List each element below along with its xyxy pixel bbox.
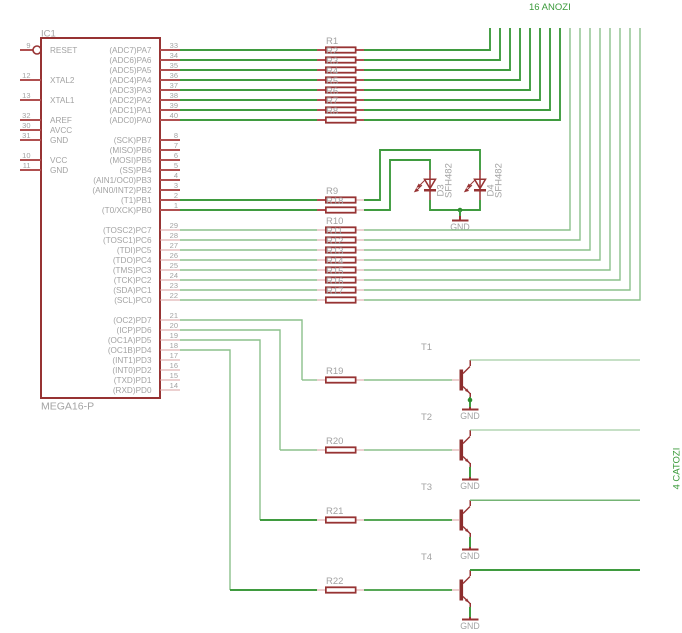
resistor R6 [317,99,325,101]
wire anode net A4 from R4 up to header [364,28,520,80]
svg-text:T3: T3 [421,482,432,493]
wire net PA0 from pin 40 to R8 [180,119,317,121]
pin 15 ((TXD)PD1) right stub [160,379,180,381]
resistor R10 [317,229,325,231]
svg-text:12: 12 [22,71,30,80]
svg-text:(T1)PB1: (T1)PB1 [121,196,152,205]
pin 5 ((SS)PB4) right stub [160,169,180,171]
pin 20 ((ICP)PD6) right stub [160,329,180,331]
resistor R7 [317,109,325,111]
svg-text:19: 19 [170,331,178,340]
svg-text:35: 35 [170,61,178,70]
pin 19 ((OC1A)PD5) right stub [160,339,180,341]
wire anode net A8 from R8 up to header [364,28,560,120]
wire net PA6 from pin 34 to R2 [180,59,317,61]
wire anode net A9 from R10 up to header [364,28,570,230]
D4 emission arrows [465,181,475,192]
svg-text:27: 27 [170,241,178,250]
wire anode net A5 from R5 up to header [364,28,530,90]
svg-text:7: 7 [174,141,178,150]
wire from R9 up and over to LED D4 anode [364,150,480,200]
wire net PA4 from pin 36 to R4 [180,79,317,81]
wire anode net A10 from R11 up to header [364,28,580,240]
svg-text:37: 37 [170,81,178,90]
pin 34 ((ADC6)PA6) right stub [160,59,180,61]
transistor T1 (NPN) [452,379,459,381]
resistor R16 [317,289,325,291]
pin 33 ((ADC7)PA7) right stub [160,49,180,51]
svg-text:XTAL2: XTAL2 [50,76,75,85]
svg-text:R8: R8 [326,106,338,117]
pin 24 ((TCK)PC2) right stub [160,279,180,281]
svg-text:R18: R18 [326,196,343,207]
svg-text:VCC: VCC [50,156,67,165]
pin 25 ((TMS)PC3) right stub [160,269,180,271]
svg-text:18: 18 [170,341,178,350]
wire anode net A7 from R7 up to header [364,28,550,110]
RESET inversion bubble [33,46,41,54]
wire emitter of T1 to ground [469,397,471,407]
pin 12 (XTAL2) left stub [20,79,41,81]
pin 35 ((ADC5)PA5) right stub [160,69,180,71]
svg-text:29: 29 [170,221,178,230]
svg-text:5: 5 [174,161,178,170]
svg-text:(SCL)PC0: (SCL)PC0 [114,296,152,305]
wire net PA2 from pin 38 to R6 [180,99,317,101]
svg-text:33: 33 [170,41,178,50]
svg-text:9: 9 [26,41,30,50]
svg-text:(TDI)PC5: (TDI)PC5 [117,246,152,255]
svg-text:10: 10 [22,151,30,160]
wire into R21 [260,519,317,521]
ground symbol GND (T4) [469,617,471,619]
pin 8 ((SCK)PB7) right stub [160,139,180,141]
pin 36 ((ADC4)PA4) right stub [160,79,180,81]
svg-text:(OC1A)PD5: (OC1A)PD5 [108,336,152,345]
svg-text:(MISO)PB6: (MISO)PB6 [110,146,152,155]
svg-text:16 ANOZI: 16 ANOZI [529,2,571,13]
LED D4 SFH482 [475,179,486,188]
resistor R8 [317,119,325,121]
wire net PC4 from pin 26 to R13 [180,259,317,261]
wire net PC7 from pin 29 to R10 [180,229,317,231]
resistor R1 [317,49,325,51]
svg-text:(T0/XCK)PB0: (T0/XCK)PB0 [102,206,152,215]
svg-text:(TOSC2)PC7: (TOSC2)PC7 [103,226,152,235]
svg-text:R20: R20 [326,436,343,447]
svg-text:SFH482: SFH482 [444,163,455,198]
pin 22 ((SCL)PC0) right stub [160,299,180,301]
wire into R19 [302,379,317,381]
resistor R4 [317,79,325,81]
svg-text:15: 15 [170,371,178,380]
svg-text:IC1: IC1 [41,29,56,40]
svg-text:GND: GND [50,136,68,145]
wire anode net A16 from R17 up to header [364,28,640,300]
svg-text:GND: GND [460,411,480,421]
svg-text:SFH482: SFH482 [494,163,505,198]
pin 21 ((OC2)PD7) right stub [160,319,180,321]
resistor R11 [317,239,325,241]
wire net PB1 from pin 2 to R9 [180,199,317,201]
svg-text:(OC1B)PD4: (OC1B)PD4 [108,346,152,355]
svg-text:14: 14 [170,381,178,390]
wire anode net A2 from R2 up to header [364,28,500,60]
pin 1 ((T0/XCK)PB0) right stub [160,209,180,211]
wire net PC2 from pin 24 to R15 [180,279,317,281]
svg-text:30: 30 [22,121,30,130]
svg-text:17: 17 [170,351,178,360]
wire net PA3 from pin 37 to R5 [180,89,317,91]
wire anode net A3 from R3 up to header [364,28,510,70]
wire net PA7 from pin 33 to R1 [180,49,317,51]
D3 emission arrows [415,181,425,192]
svg-text:MEGA16-P: MEGA16-P [41,401,94,413]
pin 38 ((ADC2)PA2) right stub [160,99,180,101]
svg-text:(SDA)PC1: (SDA)PC1 [113,286,152,295]
svg-text:40: 40 [170,111,178,120]
svg-text:26: 26 [170,251,178,260]
wire from R18 up and over to LED D3 anode [364,160,430,210]
svg-text:T4: T4 [421,552,432,563]
wire base net from R20 to T2 [364,449,452,451]
pin 23 ((SDA)PC1) right stub [160,289,180,291]
wire anode net A12 from R13 up to header [364,28,600,260]
pin 26 ((TDO)PC4) right stub [160,259,180,261]
wire into R20 [280,449,317,451]
svg-text:2: 2 [174,191,178,200]
svg-text:21: 21 [170,311,178,320]
svg-text:R19: R19 [326,366,343,377]
svg-text:34: 34 [170,51,178,60]
wire base net from R19 to T1 [364,379,452,381]
pin 4 ((AIN1/OC0)PB3) right stub [160,179,180,181]
wire net PD5 from pin 19 down to R21 [180,340,260,520]
wire LED cathodes joined to ground net [430,200,480,210]
svg-text:(ADC3)PA3: (ADC3)PA3 [109,86,152,95]
wire emitter of T2 to ground [469,467,471,477]
pin 18 ((OC1B)PD4) right stub [160,349,180,351]
svg-text:RESET: RESET [50,46,77,55]
svg-text:GND: GND [460,621,480,631]
transistor T2 (NPN) [452,449,459,451]
svg-text:1: 1 [174,201,178,210]
svg-text:(TCK)PC2: (TCK)PC2 [114,276,152,285]
pin 16 ((INT0)PD2) right stub [160,369,180,371]
ground symbol GND (T1) [469,407,471,409]
svg-text:R22: R22 [326,576,343,587]
wire net PB0 from pin 1 to R18 [180,209,317,211]
svg-text:11: 11 [23,161,31,170]
pin 17 ((INT1)PD3) right stub [160,359,180,361]
svg-text:36: 36 [170,71,178,80]
svg-text:4 CATOZI: 4 CATOZI [672,448,682,490]
resistor R9 [317,199,325,201]
resistor R22 [317,589,325,591]
svg-text:(ADC6)PA6: (ADC6)PA6 [109,56,152,65]
transistor T4 (NPN) [452,589,459,591]
LED D3 SFH482 [425,179,436,188]
svg-text:8: 8 [174,131,178,140]
pin 3 ((AIN0/INT2)PB2) right stub [160,189,180,191]
pin 14 ((RXD)PD0) right stub [160,389,180,391]
wire cathode net from T1 collector to right [470,359,640,361]
resistor R5 [317,89,325,91]
svg-text:13: 13 [22,91,30,100]
wire cathode net from T3 collector to right [470,499,640,501]
resistor R12 [317,249,325,251]
resistor R3 [317,69,325,71]
svg-text:(ADC4)PA4: (ADC4)PA4 [109,76,152,85]
svg-text:XTAL1: XTAL1 [50,96,75,105]
wire anode net A13 from R14 up to header [364,28,610,270]
svg-text:AVCC: AVCC [50,126,72,135]
wire anode net A15 from R16 up to header [364,28,630,290]
pin 11 (GND) left stub [20,169,41,171]
svg-text:16: 16 [170,361,178,370]
svg-text:(ADC5)PA5: (ADC5)PA5 [109,66,152,75]
wire net PC6 from pin 28 to R11 [180,239,317,241]
svg-text:T2: T2 [421,412,432,423]
svg-text:(ADC2)PA2: (ADC2)PA2 [109,96,152,105]
svg-text:3: 3 [174,181,178,190]
svg-text:6: 6 [174,151,178,160]
pin 32 (AREF) left stub [20,119,41,121]
svg-text:(MOSI)PB5: (MOSI)PB5 [110,156,152,165]
junction dot on T1 emitter net [468,398,473,403]
svg-text:31: 31 [22,131,30,140]
pin 40 ((ADC0)PA0) right stub [160,119,180,121]
resistor R20 [317,449,325,451]
svg-text:GND: GND [460,481,480,491]
svg-text:T1: T1 [421,342,432,353]
wire into R22 [230,589,317,591]
svg-text:25: 25 [170,261,178,270]
svg-text:(ADC0)PA0: (ADC0)PA0 [109,116,152,125]
pin 39 ((ADC1)PA1) right stub [160,109,180,111]
svg-text:(ADC7)PA7: (ADC7)PA7 [109,46,152,55]
svg-text:28: 28 [170,231,178,240]
pin 27 ((TDI)PC5) right stub [160,249,180,251]
wire net PD4 from pin 18 down to R22 [180,350,230,590]
svg-text:22: 22 [170,291,178,300]
svg-text:(SS)PB4: (SS)PB4 [120,166,152,175]
IC IC1: microcontroller MEGA16-P body [41,38,160,398]
svg-text:(RXD)PD0: (RXD)PD0 [113,386,152,395]
junction dot at LED ground node [458,208,463,213]
wire cathode net from T2 collector to right [470,429,640,431]
svg-text:R21: R21 [326,506,343,517]
svg-text:(TDO)PC4: (TDO)PC4 [113,256,152,265]
svg-text:(ICP)PD6: (ICP)PD6 [116,326,151,335]
wire base net from R21 to T3 [364,519,452,521]
svg-text:23: 23 [170,281,178,290]
svg-text:38: 38 [170,91,178,100]
pin 37 ((ADC3)PA3) right stub [160,89,180,91]
svg-text:39: 39 [170,101,178,110]
svg-text:(INT0)PD2: (INT0)PD2 [112,366,152,375]
wire net PC1 from pin 23 to R16 [180,289,317,291]
wire emitter of T3 to ground [469,537,471,547]
resistor R15 [317,279,325,281]
wire anode net A6 from R6 up to header [364,28,540,100]
wire net PC3 from pin 25 to R14 [180,269,317,271]
svg-text:(AIN0/INT2)PB2: (AIN0/INT2)PB2 [92,186,152,195]
transistor T3 (NPN) [452,519,459,521]
ground symbol GND (LEDs) [459,216,461,220]
wire stub to GND symbol [459,210,461,216]
resistor R18 [317,209,325,211]
pin 7 ((MISO)PB6) right stub [160,149,180,151]
svg-text:24: 24 [170,271,178,280]
svg-text:(ADC1)PA1: (ADC1)PA1 [109,106,152,115]
resistor R17 [317,299,325,301]
resistor R19 [317,379,325,381]
pin 31 (GND) left stub [20,139,41,141]
svg-text:(TMS)PC3: (TMS)PC3 [113,266,152,275]
wire emitter of T4 to ground [469,607,471,617]
resistor R21 [317,519,325,521]
resistor R2 [317,59,325,61]
svg-text:(SCK)PB7: (SCK)PB7 [114,136,152,145]
pin 28 ((TOSC1)PC6) right stub [160,239,180,241]
svg-text:GND: GND [460,551,480,561]
svg-text:(INT1)PD3: (INT1)PD3 [112,356,152,365]
ground symbol GND (T2) [469,477,471,479]
wire anode net A11 from R12 up to header [364,28,590,250]
wire net PA5 from pin 35 to R3 [180,69,317,71]
svg-text:AREF: AREF [50,116,72,125]
svg-text:32: 32 [22,111,30,120]
wire cathode net from T4 collector to right [470,569,640,571]
pin 2 ((T1)PB1) right stub [160,199,180,201]
pin 29 ((TOSC2)PC7) right stub [160,229,180,231]
wire net PC0 from pin 22 to R17 [180,299,317,301]
svg-text:(OC2)PD7: (OC2)PD7 [113,316,152,325]
wire net PC5 from pin 27 to R12 [180,249,317,251]
wire base net from R22 to T4 [364,589,452,591]
wire anode net A1 from R1 up to header [364,28,490,50]
resistor R13 [317,259,325,261]
wire net PA1 from pin 39 to R7 [180,109,317,111]
svg-text:GND: GND [50,166,68,175]
pin 10 (VCC) left stub [20,159,41,161]
svg-text:4: 4 [174,171,178,180]
svg-text:R17: R17 [326,286,343,297]
pin 6 ((MOSI)PB5) right stub [160,159,180,161]
pin 9 (RESET) left stub [20,49,33,51]
wire anode net A14 from R15 up to header [364,28,620,280]
pin 13 (XTAL1) left stub [20,99,41,101]
ground symbol GND (T3) [469,547,471,549]
svg-text:(TOSC1)PC6: (TOSC1)PC6 [103,236,152,245]
svg-text:(TXD)PD1: (TXD)PD1 [114,376,152,385]
wire net PD7 from pin 21 down to R19 [180,320,302,380]
wire net PD6 from pin 20 down to R20 [180,330,280,450]
resistor R14 [317,269,325,271]
svg-text:(AIN1/OC0)PB3: (AIN1/OC0)PB3 [93,176,152,185]
svg-text:20: 20 [170,321,178,330]
pin 30 (AVCC) left stub [20,129,41,131]
